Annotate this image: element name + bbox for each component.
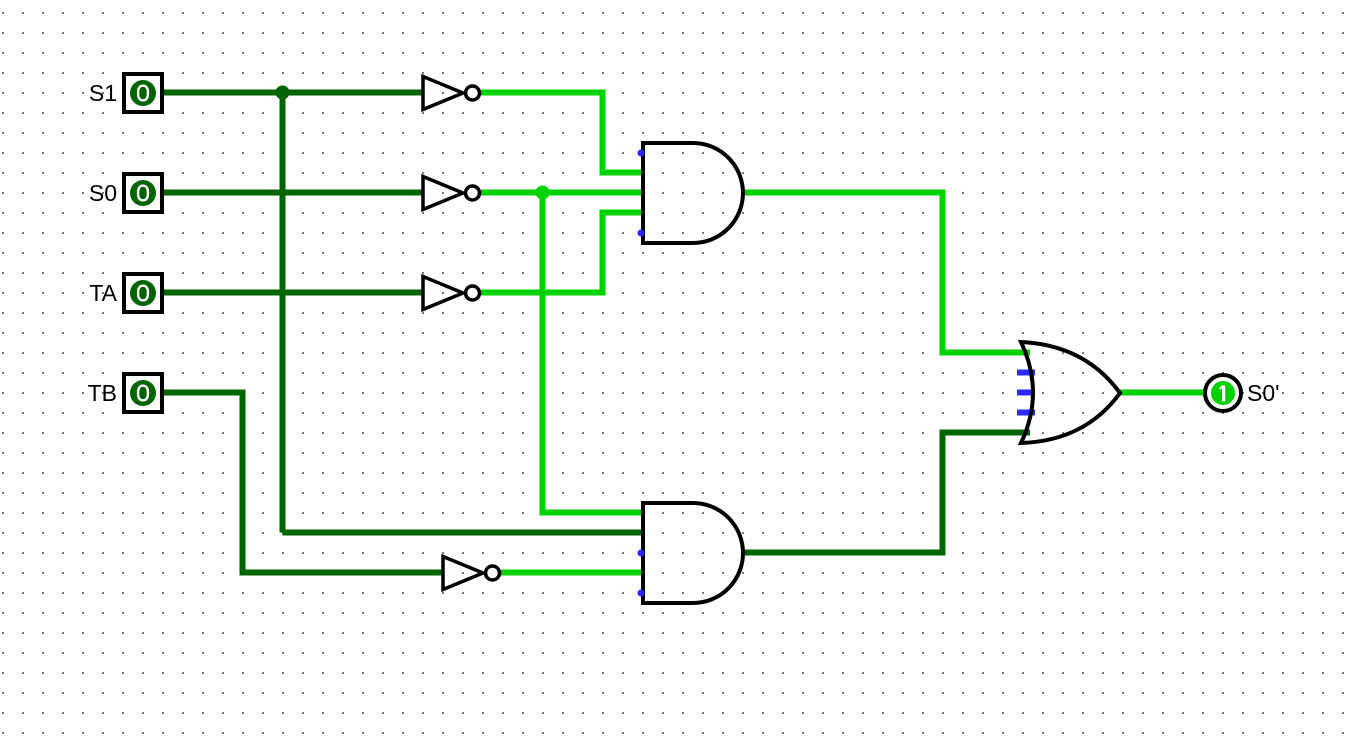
svg-text:S1: S1 — [89, 80, 117, 106]
NOT gate U1 (S1 row) — [423, 77, 480, 110]
AND gate U6 (lower) — [643, 503, 743, 603]
input pin S1 — [124, 74, 162, 112]
NOT gate U3 (TA row) — [423, 277, 480, 310]
input pin TB — [124, 374, 162, 412]
svg-text:S0': S0' — [1247, 380, 1280, 406]
OR gate U7 unconnected input stub 4 — [1017, 410, 1035, 416]
wire TB pin down and to NOT4 input — [161, 393, 443, 573]
OR gate U7 unconnected input stub 3 — [1017, 390, 1035, 396]
NOT gate U2 (S0 row) — [423, 177, 480, 210]
AND gate U6 unconnected input dot bottom — [638, 590, 645, 597]
wire NOT3 output to AND1 input 4 — [481, 213, 645, 293]
wire AND1 output to OR input 1 — [743, 193, 1030, 353]
wire AND2 output to OR input 5 — [743, 433, 1030, 553]
wire TA pin to NOT3 input — [161, 290, 423, 296]
wire NOT4 output to AND2 input 4 — [501, 570, 645, 576]
junction on S1 wire — [276, 86, 290, 100]
OR gate U7 — [1021, 342, 1120, 443]
svg-text:S0: S0 — [89, 180, 117, 206]
wire NOT2 output to AND1 input 3 — [481, 190, 645, 196]
wire NOT2 branch vertical to AND2 input 1 — [543, 193, 646, 513]
AND gate U5 unconnected input dot top — [638, 150, 645, 157]
wire S1 pin to NOT1 input — [161, 90, 423, 96]
AND gate U6 unconnected input dot middle — [638, 550, 645, 557]
NOT gate U4 (TB row) — [443, 557, 500, 590]
input pin S0 — [124, 174, 162, 212]
wire S1 branch vertical down — [280, 93, 286, 533]
wire S0 pin to NOT2 input — [161, 190, 423, 196]
wire OR output to pin S0' — [1119, 390, 1204, 396]
OR gate U7 unconnected input stub 2 — [1017, 370, 1035, 376]
output pin S0' — [1205, 375, 1241, 411]
AND gate U5 unconnected input dot bottom — [638, 230, 645, 237]
wire S1 branch to AND2 input — [283, 530, 646, 536]
svg-text:TB: TB — [88, 380, 117, 406]
wire NOT1 output to AND1 input 2 — [481, 93, 645, 173]
input pin TA — [124, 274, 162, 312]
AND gate U5 (upper) — [643, 143, 743, 243]
svg-text:TA: TA — [89, 280, 117, 306]
junction on NOT2 output wire — [536, 186, 550, 200]
